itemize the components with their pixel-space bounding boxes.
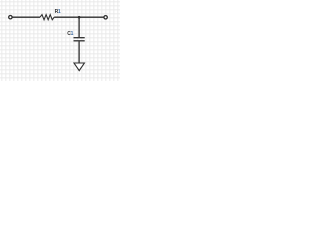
terminal left (9, 16, 12, 19)
wire right lead (54, 16, 103, 18)
terminal right (104, 16, 107, 19)
wire left lead (12, 16, 40, 18)
junction node (78, 16, 81, 19)
svg-text:C1: C1 (67, 31, 73, 37)
capacitor C1 (74, 38, 85, 41)
svg-text:R1: R1 (55, 9, 61, 15)
resistor R1 (40, 15, 54, 20)
wire junction to capacitor (78, 17, 80, 37)
wire capacitor to ground (78, 41, 80, 63)
ground (74, 63, 84, 71)
